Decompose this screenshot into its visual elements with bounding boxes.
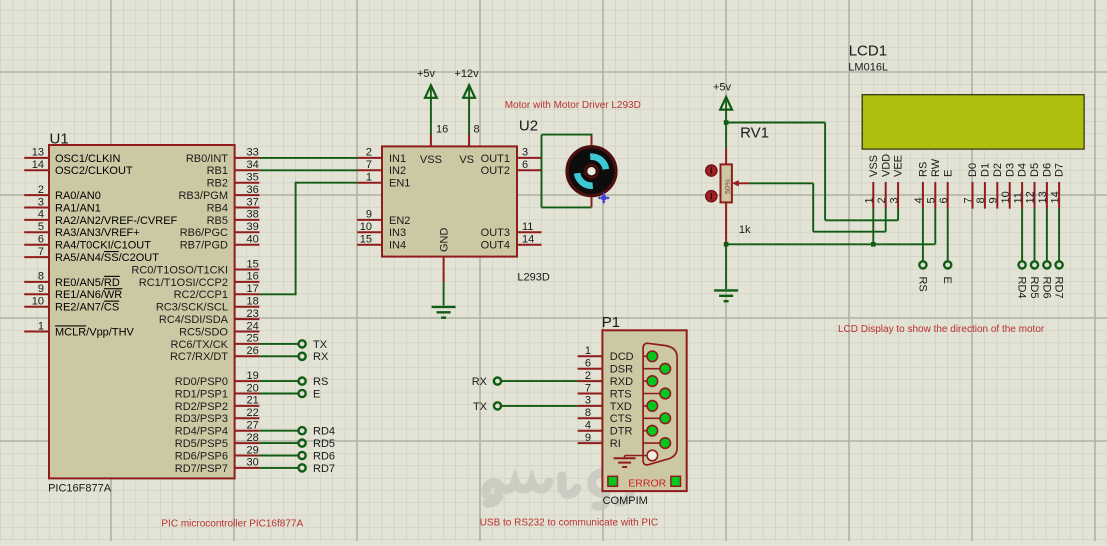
wire U2 outputs to motor (left vertical) xyxy=(541,135,543,208)
svg-text:D5: D5 xyxy=(1029,163,1041,177)
svg-text:6: 6 xyxy=(38,234,44,246)
svg-text:PIC16F877A: PIC16F877A xyxy=(48,483,112,495)
svg-text:RB4: RB4 xyxy=(207,202,228,214)
U2 pin 11 OUT3 (right) xyxy=(517,231,542,233)
svg-text:D3: D3 xyxy=(1004,163,1016,177)
svg-text:VSS: VSS xyxy=(420,154,442,166)
wire RC2/CCP1 to U2 EN1 (up route) xyxy=(259,293,295,295)
ground symbol below U2 xyxy=(432,306,456,308)
U2 pin 7 IN2 (left) xyxy=(357,169,382,171)
svg-text:RI: RI xyxy=(610,438,621,450)
svg-text:RD7: RD7 xyxy=(1053,277,1065,299)
terminal RD5 (LCD side) xyxy=(1031,261,1038,268)
svg-text:RD5: RD5 xyxy=(1028,277,1040,299)
P1 pin 2 RXD xyxy=(578,380,603,382)
svg-text:D1: D1 xyxy=(980,163,992,177)
svg-text:25: 25 xyxy=(247,333,259,345)
svg-text:USB to RS232 to communicate wi: USB to RS232 to communicate with PIC xyxy=(480,518,658,529)
wire RB1 to U2 IN2 xyxy=(259,169,357,171)
svg-text:40: 40 xyxy=(247,234,259,246)
svg-text:RB0/INT: RB0/INT xyxy=(186,153,228,165)
svg-text:11: 11 xyxy=(522,221,533,233)
svg-text:RX: RX xyxy=(313,351,329,363)
wire LCD RW to ground rail xyxy=(934,209,936,245)
svg-text:RA1/AN1: RA1/AN1 xyxy=(55,202,101,214)
U2 pin 1 EN1 (left) xyxy=(357,182,382,184)
svg-text:2: 2 xyxy=(38,184,44,196)
wire U1 pin 30 to terminal RD7 xyxy=(259,467,298,469)
svg-text:COMPIM: COMPIM xyxy=(603,495,648,507)
svg-text:OSC2/CLKOUT: OSC2/CLKOUT xyxy=(55,165,133,177)
terminal RX xyxy=(494,378,501,385)
svg-text:26: 26 xyxy=(247,345,259,357)
wire motor bottom xyxy=(542,206,592,208)
svg-text:RA5/AN4/SS/C2OUT: RA5/AN4/SS/C2OUT xyxy=(55,252,159,264)
U1 pin 8 (left, row 10) xyxy=(24,281,49,283)
svg-text:5: 5 xyxy=(38,221,44,233)
svg-text:17: 17 xyxy=(247,283,259,295)
svg-text:RS: RS xyxy=(918,162,930,177)
U1 pin 21 RD2/PSP2 (right, row 20) xyxy=(235,405,260,407)
wire LCD D4 to terminal RD4 xyxy=(1021,209,1023,262)
svg-text:RE2/AN7/CS: RE2/AN7/CS xyxy=(55,302,119,314)
P1 COMPIM body xyxy=(602,330,686,491)
wire U1 pin 20 to terminal E xyxy=(259,393,298,395)
U1 pin 26 RC7/RX/DT (right, row 16) xyxy=(235,355,260,357)
P1 pin 6 DSR xyxy=(578,368,603,370)
svg-text:+5v: +5v xyxy=(417,68,436,80)
wire LCD VSS to ground rail xyxy=(872,209,874,245)
svg-text:8: 8 xyxy=(585,407,591,419)
U1 pin 4 (left, row 5) xyxy=(24,219,49,221)
svg-text:EN1: EN1 xyxy=(389,178,410,190)
svg-text:7: 7 xyxy=(38,246,44,258)
wire LCD VEE down to +5v rail xyxy=(897,209,899,221)
svg-text:DTR: DTR xyxy=(610,426,633,438)
svg-text:36: 36 xyxy=(247,184,259,196)
svg-text:RC4/SDI/SDA: RC4/SDI/SDA xyxy=(159,314,229,326)
U1 pin 19 RD0/PSP0 (right, row 18) xyxy=(235,380,260,382)
svg-text:3: 3 xyxy=(585,395,591,407)
svg-text:OUT1: OUT1 xyxy=(481,153,510,165)
svg-text:1: 1 xyxy=(38,320,44,332)
U1 pin 2 (left, row 3) xyxy=(24,194,49,196)
motor (DC motor symbol) xyxy=(567,147,616,196)
svg-text:+12v: +12v xyxy=(454,68,479,80)
wire LCD RS to terminal xyxy=(922,209,924,262)
U1 pin 17 RC2/CCP1 (right, row 11) xyxy=(235,293,260,295)
svg-text:3: 3 xyxy=(38,196,44,208)
P1 pin 7 RTS xyxy=(578,393,603,395)
P1 error indicator square left xyxy=(608,476,618,486)
svg-text:+5v: +5v xyxy=(713,82,732,94)
U1 pin 37 RB4 (right, row 4) xyxy=(235,207,260,209)
U1 pin 24 RC5/SDO (right, row 14) xyxy=(235,331,260,333)
svg-text:RB7/PGD: RB7/PGD xyxy=(180,240,228,252)
terminal RD6 (LCD side) xyxy=(1043,261,1050,268)
wire RB0 to U2 IN1 xyxy=(259,157,357,159)
svg-text:4: 4 xyxy=(585,420,591,432)
svg-text:39: 39 xyxy=(247,221,259,233)
svg-text:RC1/T1OSI/CCP2: RC1/T1OSI/CCP2 xyxy=(139,277,228,289)
svg-text:16: 16 xyxy=(247,271,259,283)
U1 pin 14 (left, row 1) xyxy=(24,169,49,171)
svg-text:TX: TX xyxy=(473,401,488,413)
wire RX terminal to P1 RXD xyxy=(501,380,578,382)
svg-text:RD3/PSP3: RD3/PSP3 xyxy=(175,413,228,425)
svg-text:RD5: RD5 xyxy=(313,438,335,450)
svg-text:RD0/PSP0: RD0/PSP0 xyxy=(175,376,228,388)
svg-text:VS: VS xyxy=(459,154,474,166)
U1 pin 23 RC4/SDI/SDA (right, row 13) xyxy=(235,318,260,320)
svg-text:6: 6 xyxy=(522,159,528,171)
RV1 marker circle top xyxy=(706,165,717,176)
svg-text:RD1/PSP1: RD1/PSP1 xyxy=(175,388,228,400)
svg-text:9: 9 xyxy=(366,209,372,221)
U1 PIC16F877A microcontroller body xyxy=(49,145,235,478)
svg-text:E: E xyxy=(942,170,954,177)
svg-text:RB1: RB1 xyxy=(207,165,228,177)
svg-text:2: 2 xyxy=(585,370,591,382)
U1 pin 6 (left, row 7) xyxy=(24,244,49,246)
RV1 bottom pin stub xyxy=(725,202,727,244)
svg-text:RB3/PGM: RB3/PGM xyxy=(178,190,228,202)
svg-text:19: 19 xyxy=(247,370,259,382)
svg-text:RA2/AN2/VREF-/CVREF: RA2/AN2/VREF-/CVREF xyxy=(55,215,178,227)
svg-text:RD4: RD4 xyxy=(313,426,335,438)
U1 pin 10 (left, row 12) xyxy=(24,306,49,308)
svg-text:RD5/PSP5: RD5/PSP5 xyxy=(175,438,228,450)
svg-text:23: 23 xyxy=(247,308,259,320)
svg-text:RC7/RX/DT: RC7/RX/DT xyxy=(170,351,228,363)
RV1 body xyxy=(721,164,732,202)
svg-text:TXD: TXD xyxy=(610,401,632,413)
motor origin crosshair marker xyxy=(598,192,610,204)
svg-text:RD6/PSP6: RD6/PSP6 xyxy=(175,450,228,462)
svg-text:L293D: L293D xyxy=(517,272,549,284)
svg-text:2: 2 xyxy=(366,147,372,159)
U2 L293D motor driver body xyxy=(382,146,517,256)
svg-text:OSC1/CLKIN: OSC1/CLKIN xyxy=(55,153,120,165)
svg-text:8: 8 xyxy=(38,271,44,283)
RV1 wiper arrow xyxy=(732,180,739,186)
wire TX terminal to P1 TXD xyxy=(501,405,578,407)
svg-text:DSR: DSR xyxy=(610,364,633,376)
svg-text:RA0/AN0: RA0/AN0 xyxy=(55,190,101,202)
svg-text:37: 37 xyxy=(247,196,259,208)
svg-text:1k: 1k xyxy=(739,224,751,236)
U1 pin 20 RD1/PSP1 (right, row 19) xyxy=(235,393,260,395)
svg-text:RS: RS xyxy=(916,277,928,292)
svg-text:RC2/CCP1: RC2/CCP1 xyxy=(174,289,228,301)
svg-text:RE1/AN6/WR: RE1/AN6/WR xyxy=(55,289,122,301)
P1 D-sub shield circle (white) xyxy=(647,450,658,461)
svg-text:IN2: IN2 xyxy=(389,165,406,177)
wire +5v rail to LCD VEE (right-down route) xyxy=(726,122,825,124)
wire U1 pin 29 to terminal RD6 xyxy=(259,455,298,457)
U1 pin 15 RC0/T1OSO/T1CKI (right, row 9) xyxy=(235,269,260,271)
wire +5v to U2 VSS xyxy=(430,98,432,135)
node junction VSS/ground rail xyxy=(871,242,876,247)
svg-text:3: 3 xyxy=(522,147,528,159)
svg-text:9: 9 xyxy=(38,283,44,295)
svg-text:GND: GND xyxy=(438,228,450,253)
P1 D-sub connector outline xyxy=(643,343,677,465)
svg-text:P1: P1 xyxy=(602,314,620,331)
U1 pin 27 RD4/PSP4 (right, row 22) xyxy=(235,430,260,432)
svg-text:6: 6 xyxy=(585,358,591,370)
svg-text:RS: RS xyxy=(313,376,328,388)
wire U1 pin 25 to terminal TX xyxy=(259,343,298,345)
wire LCD E to terminal xyxy=(947,209,949,262)
U1 pin 5 (left, row 6) xyxy=(24,231,49,233)
svg-text:IN1: IN1 xyxy=(389,153,406,165)
U2 pin 15 IN4 (left) xyxy=(357,244,382,246)
P1 error indicator square right xyxy=(671,476,681,486)
svg-text:RA3/AN3/VREF+: RA3/AN3/VREF+ xyxy=(55,227,140,239)
svg-text:18: 18 xyxy=(247,296,259,308)
svg-text:RW: RW xyxy=(930,158,942,177)
wire +12v to U2 VS xyxy=(468,98,470,135)
svg-text:E: E xyxy=(941,277,953,284)
svg-text:LCD Display to show the direct: LCD Display to show the direction of the… xyxy=(838,324,1045,335)
svg-text:RA4/T0CKI/C1OUT: RA4/T0CKI/C1OUT xyxy=(55,240,151,252)
svg-text:RB2: RB2 xyxy=(207,178,228,190)
wire RV1 bottom to ground xyxy=(725,244,727,289)
svg-text:RXD: RXD xyxy=(610,376,633,388)
svg-text:D4: D4 xyxy=(1017,163,1029,177)
ground symbol below RV1 xyxy=(714,289,738,291)
motor pin stubs xyxy=(591,136,593,148)
P1 internal ground symbol xyxy=(625,455,648,457)
svg-text:IN4: IN4 xyxy=(389,240,406,252)
wire motor top xyxy=(542,134,592,136)
svg-text:U1: U1 xyxy=(50,131,69,148)
svg-text:35: 35 xyxy=(247,172,259,184)
svg-text:RD4/PSP4: RD4/PSP4 xyxy=(175,426,228,438)
svg-text:10: 10 xyxy=(360,221,372,233)
svg-text:RD6: RD6 xyxy=(1040,277,1052,299)
U1 pin 39 RB6/PGC (right, row 6) xyxy=(235,231,260,233)
svg-text:50%: 50% xyxy=(723,179,732,194)
svg-text:20: 20 xyxy=(247,382,259,394)
U1 pin 18 RC3/SCK/SCL (right, row 12) xyxy=(235,306,260,308)
svg-text:RC3/SCK/SCL: RC3/SCK/SCL xyxy=(156,302,228,314)
svg-text:28: 28 xyxy=(247,432,259,444)
svg-text:EN2: EN2 xyxy=(389,215,410,227)
svg-text:33: 33 xyxy=(247,147,259,159)
svg-text:OUT2: OUT2 xyxy=(481,165,510,177)
P1 D-sub pin lead lines xyxy=(643,356,665,443)
svg-text:1: 1 xyxy=(585,345,591,357)
svg-text:RC6/TX/CK: RC6/TX/CK xyxy=(171,339,229,351)
svg-text:CTS: CTS xyxy=(610,413,632,425)
RV1 top pin stub xyxy=(725,148,727,164)
svg-text:RB6/PGC: RB6/PGC xyxy=(180,227,228,239)
terminal RD7 xyxy=(299,464,306,471)
U1 pin 36 RB3/PGM (right, row 3) xyxy=(235,194,260,196)
P1 pin 4 DTR xyxy=(578,430,603,432)
U1 pin 13 (left, row 0) xyxy=(24,157,49,159)
P1 pin 1 DCD xyxy=(578,355,603,357)
svg-text:38: 38 xyxy=(247,209,259,221)
svg-text:E: E xyxy=(313,388,320,400)
svg-text:RD4: RD4 xyxy=(1016,277,1028,299)
svg-text:DCD: DCD xyxy=(610,351,634,363)
terminal RD6 xyxy=(299,452,306,459)
svg-text:RD2/PSP2: RD2/PSP2 xyxy=(175,401,228,413)
node junction at RV1 bottom / ground rail xyxy=(724,242,729,247)
svg-text:9: 9 xyxy=(585,432,591,444)
wire U1 pin 27 to terminal RD4 xyxy=(259,430,298,432)
U1 pin 30 RD7/PSP7 (right, row 25) xyxy=(235,467,260,469)
U1 pin 3 (left, row 4) xyxy=(24,207,49,209)
U1 pin 16 RC1/T1OSI/CCP2 (right, row 10) xyxy=(235,281,260,283)
wire U1 pin 28 to terminal RD5 xyxy=(259,442,298,444)
svg-text:1: 1 xyxy=(366,172,372,184)
svg-text:VEE: VEE xyxy=(893,155,905,177)
U1 pin 40 RB7/PGD (right, row 7) xyxy=(235,244,260,246)
svg-text:D7: D7 xyxy=(1054,163,1066,177)
svg-text:IN3: IN3 xyxy=(389,227,406,239)
wire LCD D5 to terminal RD5 xyxy=(1034,209,1036,262)
svg-text:30: 30 xyxy=(247,457,259,469)
wire LCD D6 to terminal RD6 xyxy=(1046,209,1048,262)
svg-text:RD6: RD6 xyxy=(313,450,335,462)
svg-text:LM016L: LM016L xyxy=(848,62,888,74)
wire LCD VDD down to wiper rail xyxy=(885,209,887,232)
terminal E xyxy=(299,390,306,397)
U2 pin 14 OUT4 (right) xyxy=(517,244,542,246)
svg-text:16: 16 xyxy=(436,124,448,136)
svg-text:22: 22 xyxy=(247,407,259,419)
wire +5v down to RV1 xyxy=(725,110,727,148)
svg-text:RD7: RD7 xyxy=(313,463,335,475)
svg-text:PIC microcontroller PIC16f877A: PIC microcontroller PIC16f877A xyxy=(161,519,303,530)
LCD1 screen xyxy=(862,95,1084,149)
P1 pin 3 TXD xyxy=(578,405,603,407)
svg-text:29: 29 xyxy=(247,444,259,456)
U2 pin 2 IN1 (left) xyxy=(357,157,382,159)
wire U2 GND to ground xyxy=(443,282,445,305)
svg-text:14: 14 xyxy=(32,159,44,171)
svg-text:8: 8 xyxy=(474,124,480,136)
svg-text:7: 7 xyxy=(585,382,591,394)
svg-text:4: 4 xyxy=(38,209,44,221)
svg-text:RD7/PSP7: RD7/PSP7 xyxy=(175,463,228,475)
terminal RS xyxy=(299,378,306,385)
svg-text:RC0/T1OSO/T1CKI: RC0/T1OSO/T1CKI xyxy=(131,264,228,276)
P1 D-sub pin circles xyxy=(647,351,658,362)
U2 pin 16 VSS (top) xyxy=(430,135,432,147)
svg-text:RTS: RTS xyxy=(610,388,632,400)
terminal RD7 (LCD side) xyxy=(1056,261,1063,268)
terminal RD5 xyxy=(299,440,306,447)
svg-text:VSS: VSS xyxy=(868,155,880,177)
P1 pin 9 RI xyxy=(578,442,603,444)
U1 pin 1 (left, row 14) xyxy=(24,331,49,333)
svg-text:ERROR: ERROR xyxy=(628,477,666,489)
terminal RX xyxy=(299,353,306,360)
U2 pin 10 IN3 (left) xyxy=(357,231,382,233)
P1 pin 8 CTS xyxy=(578,417,603,419)
terminal RD4 (LCD side) xyxy=(1019,261,1026,268)
svg-text:10: 10 xyxy=(32,296,44,308)
svg-text:15: 15 xyxy=(360,234,372,246)
svg-text:RE0/AN5/RD: RE0/AN5/RD xyxy=(55,277,120,289)
U2 pin 3 OUT1 (right) xyxy=(517,157,542,159)
svg-text:D6: D6 xyxy=(1042,163,1054,177)
U1 pin 7 (left, row 8) xyxy=(24,256,49,258)
U2 pin 6 OUT2 (right) xyxy=(517,169,542,171)
svg-text:21: 21 xyxy=(247,395,259,407)
U1 pin 38 RB5 (right, row 5) xyxy=(235,219,260,221)
svg-text:VDD: VDD xyxy=(880,154,892,177)
terminal TX xyxy=(494,402,501,409)
U1 pin 33 RB0/INT (right, row 0) xyxy=(235,157,260,159)
RV1 marker circle bottom xyxy=(706,191,717,202)
svg-text:OUT4: OUT4 xyxy=(481,240,510,252)
U2 pin 9 EN2 (left) xyxy=(357,219,382,221)
svg-text:D0: D0 xyxy=(967,163,979,177)
svg-text:TX: TX xyxy=(313,339,328,351)
U2 pin 8 VS (top) xyxy=(468,135,470,147)
wire U1 pin 26 to terminal RX xyxy=(259,355,298,357)
terminal RS (LCD side) xyxy=(919,261,926,268)
svg-text:U2: U2 xyxy=(519,118,538,135)
wire RV1 wiper to LCD VDD (right-down route) xyxy=(750,182,814,184)
svg-text:RV1: RV1 xyxy=(740,125,769,142)
U1 pin 9 (left, row 11) xyxy=(24,293,49,295)
wire U1 pin 19 to terminal RS xyxy=(259,380,298,382)
svg-text:Motor with Motor Driver L293D: Motor with Motor Driver L293D xyxy=(505,100,641,111)
svg-text:14: 14 xyxy=(522,234,534,246)
node junction at +5v rail xyxy=(724,120,729,125)
svg-text:34: 34 xyxy=(247,159,259,171)
svg-text:15: 15 xyxy=(247,258,259,270)
U1 pin 29 RD6/PSP6 (right, row 24) xyxy=(235,455,260,457)
terminal TX xyxy=(299,340,306,347)
svg-text:LCD1: LCD1 xyxy=(849,42,887,59)
watermark xyxy=(486,458,630,506)
svg-text:RX: RX xyxy=(472,376,488,388)
ground rail wire to LCD VSS and RW xyxy=(726,243,935,245)
wire LCD D7 to terminal RD7 xyxy=(1058,209,1060,262)
terminal E (LCD side) xyxy=(944,261,951,268)
svg-text:D2: D2 xyxy=(992,163,1004,177)
U1 pin 28 RD5/PSP5 (right, row 23) xyxy=(235,442,260,444)
terminal RD4 xyxy=(299,427,306,434)
svg-text:24: 24 xyxy=(247,320,259,332)
U1 pin 34 RB1 (right, row 1) xyxy=(235,169,260,171)
svg-text:MCLR/Vpp/THV: MCLR/Vpp/THV xyxy=(55,326,135,338)
U2 GND pin stub xyxy=(443,257,445,283)
U1 pin 35 RB2 (right, row 2) xyxy=(235,182,260,184)
svg-text:OUT3: OUT3 xyxy=(481,227,510,239)
U1 pin 22 RD3/PSP3 (right, row 21) xyxy=(235,417,260,419)
svg-text:27: 27 xyxy=(247,420,259,432)
svg-text:7: 7 xyxy=(366,159,372,171)
svg-text:RC5/SDO: RC5/SDO xyxy=(179,326,228,338)
U1 pin 25 RC6/TX/CK (right, row 15) xyxy=(235,343,260,345)
svg-text:RB5: RB5 xyxy=(207,215,228,227)
svg-text:13: 13 xyxy=(32,147,44,159)
